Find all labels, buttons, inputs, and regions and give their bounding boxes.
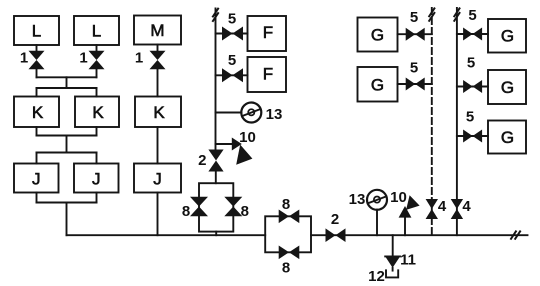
valve 1b: [89, 51, 105, 70]
wire: M to valve 1c: [157, 45, 159, 52]
wire: valve 1c to K3: [157, 69, 159, 97]
wire: bus5 drop to main line: [66, 203, 68, 236]
valve 5 (G left bottom): [406, 78, 425, 91]
svg-text:8: 8: [282, 260, 290, 277]
wire: branch to gauge 13 (middle): [216, 112, 242, 114]
svg-text:5: 5: [410, 59, 418, 76]
svg-text:J: J: [92, 169, 101, 188]
wire: bus2 into K1: [36, 88, 38, 97]
wire: bus3 below K boxes: [37, 135, 97, 137]
svg-text:G: G: [501, 26, 514, 45]
apparatus J2: [74, 164, 119, 193]
valve 1a: [29, 51, 45, 70]
svg-text:K: K: [153, 103, 165, 122]
tank L (second): [74, 16, 119, 45]
valve 4 (solid riser): [451, 199, 463, 219]
valve 5 (to F2): [222, 68, 243, 82]
wire: K1 down to bus3: [36, 127, 38, 136]
svg-text:8: 8: [182, 203, 190, 220]
svg-text:G: G: [501, 78, 514, 97]
tank F1: [248, 16, 287, 51]
tank M: [134, 16, 181, 45]
svg-text:5: 5: [466, 109, 474, 126]
wire: middle riser: [215, 9, 217, 150]
svg-text:4: 4: [462, 198, 471, 215]
svg-text:L: L: [92, 22, 101, 41]
valve 8 (loop right): [224, 197, 242, 217]
svg-text:13: 13: [349, 191, 366, 208]
gauge 13 (right): [367, 190, 387, 210]
valve 5 (G right bottom): [463, 130, 482, 143]
valve 1c: [150, 51, 166, 70]
wire: bus joining valves 1a,1b: [37, 76, 97, 78]
valve 5 (G right top): [463, 28, 482, 41]
valve 5 (G left top): [406, 28, 425, 41]
wire: valve 1a down to bus: [36, 69, 38, 78]
svg-text:5: 5: [228, 52, 236, 69]
svg-text:4: 4: [438, 198, 447, 215]
wire: G-left-top branch: [398, 33, 432, 35]
svg-text:G: G: [501, 128, 514, 147]
valve 5 (to F1): [222, 27, 243, 41]
loop of valves 8 (horizontal pair): [265, 216, 311, 252]
svg-text:5: 5: [468, 7, 476, 24]
svg-text:2: 2: [198, 152, 206, 169]
wire: bus4 above J boxes: [37, 152, 97, 154]
wire: G-right-middle branch: [457, 86, 488, 88]
vent valve 11: [385, 256, 400, 267]
wire: G-right-top branch: [457, 33, 488, 35]
apparatus K2: [75, 97, 119, 128]
break symbol: middle riser top: [213, 9, 218, 21]
wire: loop bottom stub to main: [215, 232, 217, 236]
valve 8 (horizontal loop top): [279, 210, 300, 224]
wire: center stub bus1 to bus2: [66, 77, 68, 88]
svg-text:G: G: [371, 26, 384, 45]
wire: J3 drop to main line: [157, 193, 159, 236]
wire: valve 1b down to bus: [96, 69, 98, 78]
break symbol: solid riser top: [454, 8, 459, 20]
tank G (left column, bottom): [358, 67, 398, 102]
valve 8 (horizontal loop bottom): [279, 246, 300, 260]
wire: branch to check valve 10 (middle): [216, 143, 233, 145]
svg-text:10: 10: [390, 189, 407, 206]
wire: bus2 above K boxes: [37, 87, 97, 89]
check valve 10 (middle): [232, 138, 253, 165]
svg-text:K: K: [32, 103, 44, 122]
svg-text:8: 8: [241, 203, 249, 220]
wire: J2 down to bus5: [96, 193, 98, 203]
wire: riser valve 2 to parallel loop: [215, 172, 217, 184]
wire: branch to F1: [216, 33, 248, 35]
valve 2 (middle riser): [208, 150, 223, 172]
wire: main bottom header line: [67, 234, 266, 236]
svg-text:1: 1: [135, 49, 143, 66]
wire: G-left-bottom branch: [398, 83, 432, 85]
tank F2: [248, 57, 287, 92]
svg-text:5: 5: [467, 54, 475, 71]
loop of valves 8 (vertical pair): [199, 183, 233, 231]
wire: K3 to J3: [157, 127, 159, 164]
wire: L2 to valve 1b: [96, 45, 98, 51]
tank G (right column, top): [488, 19, 526, 53]
svg-text:5: 5: [410, 9, 418, 26]
svg-text:5: 5: [228, 10, 236, 27]
svg-text:8: 8: [282, 196, 290, 213]
valve 8 (loop left): [190, 197, 208, 217]
svg-text:10: 10: [239, 129, 256, 146]
tank G (right column, bottom): [488, 121, 526, 154]
wire: L1 to valve 1a: [36, 45, 38, 51]
valve 5 (G right middle): [463, 80, 482, 93]
svg-text:M: M: [150, 21, 164, 40]
wire: center stub bus3 to bus4: [66, 136, 68, 153]
tank G (right column, middle): [488, 70, 526, 104]
svg-text:F: F: [263, 64, 273, 83]
break symbol: main line right end: [511, 231, 520, 238]
svg-text:11: 11: [400, 252, 416, 269]
wire: dashed riser (left gas header): [431, 8, 433, 235]
svg-text:F: F: [263, 23, 273, 42]
svg-text:1: 1: [79, 49, 87, 66]
wire: G-right-bottom branch: [457, 135, 488, 137]
svg-text:13: 13: [266, 106, 283, 123]
gauge 13 (middle): [241, 103, 261, 123]
drain funnel 12: [386, 270, 398, 277]
break symbol: dashed riser top: [429, 8, 434, 20]
wire: bus5 below J boxes: [37, 202, 97, 204]
wire: bus2 into K2: [96, 88, 98, 97]
apparatus J3: [134, 164, 181, 193]
svg-text:G: G: [371, 75, 384, 94]
svg-text:2: 2: [331, 211, 339, 228]
wire: K2 down to bus3: [96, 127, 98, 136]
svg-text:J: J: [153, 169, 162, 188]
apparatus K3: [135, 97, 181, 128]
svg-text:J: J: [32, 169, 41, 188]
wire: solid riser (right gas header): [456, 8, 458, 235]
tank G (left column, top): [358, 18, 398, 52]
wire: stem of gauge 13 (right): [376, 210, 378, 236]
wire: valve 11 to drain funnel: [392, 268, 394, 271]
apparatus J1: [14, 164, 59, 193]
svg-text:K: K: [92, 103, 104, 122]
apparatus K1: [14, 97, 59, 128]
wire: bus4 into J1: [36, 153, 38, 164]
wire: bus4 into J2: [96, 153, 98, 164]
svg-text:L: L: [32, 22, 41, 41]
valve 4 (dashed riser): [426, 199, 438, 219]
tank L (left): [14, 16, 59, 45]
wire: branch to F2: [216, 74, 248, 76]
svg-text:12: 12: [368, 268, 385, 285]
check valve 10 (right): [399, 195, 420, 235]
wire: J1 down to bus5: [36, 193, 38, 203]
valve 2 (main line): [326, 228, 346, 242]
svg-text:1: 1: [20, 49, 28, 66]
wire: drain drop from main line: [392, 235, 394, 256]
